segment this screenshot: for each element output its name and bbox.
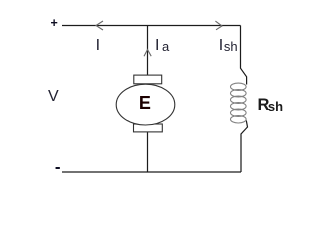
right shunt wire upper segment <box>241 26 247 85</box>
svg-text:+: + <box>51 16 58 30</box>
wire armature branch bottom <box>147 132 149 172</box>
svg-text:-: - <box>55 158 61 177</box>
svg-text:E: E <box>139 93 151 113</box>
svg-text:I: I <box>96 37 100 54</box>
top wire <box>62 25 241 27</box>
wire armature branch top <box>147 26 149 76</box>
right shunt wire lower segment <box>241 121 248 173</box>
shunt coil Rsh <box>231 83 247 123</box>
svg-text:Rsh: Rsh <box>258 96 284 114</box>
motor brush bottom <box>134 124 163 132</box>
current arrow Ish (right) <box>215 21 222 30</box>
svg-text:V: V <box>48 88 59 105</box>
svg-text:Ia: Ia <box>155 37 170 54</box>
current arrow I (left) <box>96 21 103 30</box>
svg-text:Ish: Ish <box>219 37 238 54</box>
motor brush top <box>134 75 162 84</box>
armature E ellipse <box>116 84 175 125</box>
current arrow Ia (up) <box>144 50 151 57</box>
bottom wire <box>62 171 241 173</box>
